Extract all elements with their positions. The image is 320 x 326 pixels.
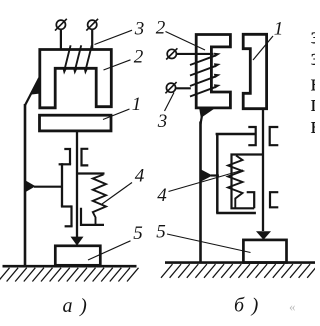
leader to label 2, left — [104, 60, 131, 70]
stem pointer tip, right — [256, 231, 271, 240]
damper cup bottom lip, left — [65, 225, 73, 227]
spring 4 (zigzag), right — [228, 156, 243, 209]
guide bracket left of stem (lower), right — [247, 192, 255, 208]
armature 1 (flat bar, left) — [40, 115, 112, 131]
leader to label 2, right — [166, 32, 206, 51]
svg-text:«: « — [289, 299, 296, 314]
coil 3 winding stroke 3 — [86, 45, 92, 69]
svg-text:5: 5 — [133, 223, 143, 244]
junction wedge on post, left — [26, 181, 36, 192]
ground hatching, left — [0, 268, 139, 282]
coil 3 winding stroke 4, right — [190, 87, 216, 97]
wire post to damper cup, left — [34, 186, 63, 188]
coil 3 winding stroke 3, right — [190, 76, 216, 86]
leader to label 3, right — [165, 93, 175, 112]
guide bracket right of stem (upper), left — [82, 149, 89, 166]
svg-text:): ) — [79, 295, 87, 317]
push rod (stem), right — [262, 109, 264, 231]
leader to label 3, left — [95, 30, 133, 44]
wire post to damper cup, right — [211, 174, 219, 176]
core 2 (П-shaped electromagnet core, left) — [40, 50, 112, 108]
spring bottom seat, left — [81, 208, 104, 225]
spring top seat, left — [78, 172, 105, 174]
leader to label 5, left — [88, 241, 131, 260]
ground line, left — [3, 265, 137, 268]
svg-text:а: а — [63, 295, 73, 317]
push rod (stem) from armature, left — [76, 131, 78, 239]
guide bracket right of stem (lower), right — [270, 192, 278, 207]
leader to label 4, left — [102, 183, 132, 205]
weld wedge at core bottom, right — [199, 109, 214, 118]
leader to label 1, right — [253, 36, 273, 60]
frame post (right diagram) — [199, 122, 202, 264]
terminal T1 (left diagram) — [56, 20, 65, 29]
leader to label 5, right — [167, 234, 251, 253]
terminal T2 (left diagram) — [88, 20, 97, 29]
terminal T1 (right diagram, upper) — [167, 49, 176, 58]
svg-text:2: 2 — [134, 47, 144, 68]
svg-text:3: 3 — [134, 19, 145, 40]
svg-text:1: 1 — [132, 94, 142, 115]
svg-text:4: 4 — [135, 165, 145, 186]
damper cup outer wall, right — [216, 134, 219, 213]
wire lead from T1 to coil — [60, 29, 62, 49]
spring box, right — [232, 155, 264, 209]
svg-text:): ) — [251, 295, 259, 317]
ground line, right — [165, 261, 315, 264]
spring 4 (zigzag), left — [93, 175, 106, 225]
coil 3 winding stroke 1, right — [190, 55, 216, 65]
wire lead from lower terminal to coil, right — [176, 87, 191, 89]
support arm (slanted), right — [201, 116, 203, 125]
svg-text:б: б — [234, 295, 245, 317]
terminal T2 (right diagram, lower) — [166, 83, 175, 92]
damper cup inner wall, left — [70, 205, 72, 226]
weld wedge at core/support junction, left — [30, 77, 41, 95]
guide bracket left of stem (upper), left — [64, 149, 70, 164]
coil 3 winding stroke 2 — [75, 45, 81, 69]
svg-text:2: 2 — [156, 18, 166, 39]
damper cup step, left — [61, 205, 72, 207]
cup shoulder tick, left — [59, 163, 72, 165]
wire lead from upper terminal to coil, right — [176, 53, 213, 55]
coil 3 winding stroke 1 — [65, 45, 71, 69]
svg-text:в: в — [311, 113, 316, 139]
svg-text:5: 5 — [156, 222, 166, 243]
support arm (slanted) from post to core, left — [25, 78, 39, 106]
armature 1 (notched bar, right) — [243, 34, 266, 108]
junction wedge on post, right — [202, 170, 213, 182]
stop block 5, right — [243, 240, 286, 263]
svg-text:3: 3 — [157, 111, 168, 132]
svg-text:1: 1 — [274, 19, 284, 40]
damper cup top, right — [216, 133, 257, 135]
stop block 5, left — [55, 246, 100, 265]
svg-text:4: 4 — [157, 185, 167, 206]
wire lead from T2 to coil — [91, 29, 93, 48]
leader to label 4, right — [169, 170, 244, 192]
coil 3 winding stroke 2, right — [190, 66, 216, 76]
leader to label 1, left — [103, 109, 130, 120]
ground hatching, right — [161, 264, 319, 278]
damper cup outer wall, left — [61, 163, 63, 206]
svg-text:з: з — [311, 45, 316, 71]
damper cup bottom, right — [216, 212, 256, 214]
stem pointer tip, left — [71, 237, 84, 246]
guide bracket right of stem (upper), right — [270, 127, 279, 145]
core 2 (C-shaped electromagnet core, right) — [196, 35, 230, 108]
frame post (left diagram) — [24, 104, 27, 267]
guide bracket left of stem (upper), right — [248, 127, 255, 145]
